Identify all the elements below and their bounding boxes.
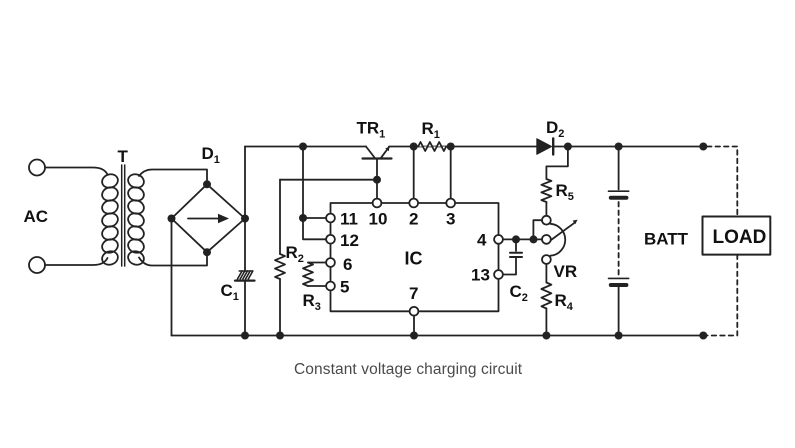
wire junction to pin 11	[303, 217, 326, 219]
dashed wire LOAD to bottom rail	[707, 255, 737, 336]
svg-text:6: 6	[343, 255, 352, 274]
wire bridge right up to top rail	[244, 147, 246, 219]
AC terminal bottom	[29, 257, 45, 273]
svg-text:D1: D1	[202, 144, 220, 166]
node R2 bottom	[276, 332, 284, 340]
svg-text:3: 3	[446, 210, 455, 229]
node R4 bottom	[542, 332, 550, 340]
IC pin 5	[326, 282, 335, 291]
wire VR top terminal to wiper	[533, 220, 542, 238]
svg-text:D2: D2	[546, 118, 564, 140]
wire R2 to bottom rail	[279, 279, 281, 336]
IC pin 2	[409, 199, 418, 208]
svg-text:C1: C1	[221, 281, 239, 303]
node rail x303	[299, 143, 307, 151]
battery dashed middle	[618, 202, 620, 275]
node battery top	[615, 143, 623, 151]
IC pin 3	[446, 199, 455, 208]
top rail right segment	[553, 146, 703, 148]
resistor R4	[541, 283, 551, 309]
svg-text:R2: R2	[286, 243, 304, 265]
wire D2 node to R5	[546, 147, 568, 180]
resistor R2	[275, 254, 285, 279]
wire R2 top lead	[279, 180, 281, 254]
battery cell 2	[609, 278, 629, 285]
wire secondary bottom to bridge	[139, 257, 207, 266]
wire pin 7 to bottom rail	[413, 316, 415, 336]
svg-text:4: 4	[477, 231, 487, 250]
wire bridge right down to C1	[244, 219, 246, 272]
IC pin 13	[494, 270, 503, 279]
svg-text:Constant voltage charging circ: Constant voltage charging circuit	[294, 361, 523, 378]
bridge node right	[241, 215, 249, 223]
svg-text:2: 2	[409, 210, 418, 229]
wire R1 right node to pin 3	[450, 147, 452, 199]
svg-text:13: 13	[471, 266, 490, 285]
wire pin 4 to VR wiper	[503, 238, 542, 240]
wire bridge left to bottom rail	[171, 220, 173, 336]
svg-text:IC: IC	[405, 249, 423, 269]
potentiometer VR	[542, 216, 578, 264]
bridge arrow	[188, 214, 229, 223]
svg-text:TR1: TR1	[357, 119, 386, 141]
IC pin 4	[494, 235, 503, 244]
bridge node bottom	[203, 248, 211, 256]
svg-text:R1: R1	[422, 119, 440, 141]
svg-text:5: 5	[340, 278, 349, 297]
node R1 left	[410, 143, 418, 151]
wire R5 to VR	[545, 202, 547, 216]
node pin7 bottom	[410, 332, 418, 340]
IC pin 7	[410, 307, 419, 316]
dashed wire top rail to LOAD	[707, 147, 737, 217]
IC pin 12	[326, 235, 335, 244]
node TR1 base / pin10 / R2	[373, 176, 381, 184]
resistor R1	[418, 142, 446, 151]
capacitor C1	[235, 271, 255, 281]
transistor TR1	[363, 147, 392, 180]
svg-text:AC: AC	[24, 207, 49, 226]
svg-text:7: 7	[409, 284, 418, 303]
node C2 top	[512, 235, 520, 243]
svg-text:BATT: BATT	[644, 230, 689, 249]
wire R1 left node to pin 2	[413, 147, 415, 199]
IC box	[331, 203, 499, 311]
svg-text:C2: C2	[510, 282, 528, 304]
node load bottom	[699, 332, 707, 340]
battery negative wire	[618, 287, 620, 336]
AC terminal top	[29, 160, 45, 176]
node D2 cathode	[564, 143, 572, 151]
svg-text:R3: R3	[303, 291, 321, 313]
svg-text:R5: R5	[556, 181, 574, 203]
node R1 right	[447, 143, 455, 151]
capacitor C2	[503, 239, 522, 274]
svg-text:LOAD: LOAD	[713, 227, 767, 248]
IC pin 6	[326, 258, 335, 267]
node pin4 wire	[530, 235, 538, 243]
svg-text:T: T	[118, 147, 129, 166]
wire R4 to bottom rail	[545, 309, 547, 336]
wire AC bottom to transformer primary	[45, 258, 108, 265]
LOAD box	[703, 217, 771, 255]
svg-text:11: 11	[340, 210, 358, 229]
bridge rectifier D1 diamond	[172, 184, 246, 252]
bridge node top	[203, 180, 211, 188]
bottom rail	[172, 335, 704, 337]
node C1 bottom	[241, 332, 249, 340]
IC pin 11	[326, 214, 335, 223]
wire base node to pin 10	[376, 180, 378, 199]
node battery bottom	[615, 332, 623, 340]
svg-text:R4: R4	[555, 291, 574, 313]
wire R2 to base node	[280, 179, 377, 181]
battery positive wire	[618, 147, 620, 190]
bridge node left	[168, 215, 176, 223]
svg-text:12: 12	[340, 231, 359, 250]
transformer T secondary coil	[126, 172, 145, 266]
svg-text:10: 10	[369, 210, 388, 229]
transformer T primary coil	[100, 172, 119, 266]
transformer T core	[122, 165, 125, 266]
node pin11 junction	[299, 214, 307, 222]
battery cell 1	[609, 191, 629, 198]
top rail left segment	[245, 146, 366, 148]
wire VR bottom to R4	[545, 264, 547, 283]
IC pin 10	[373, 199, 382, 208]
wire C1 to bottom rail	[244, 281, 246, 336]
diode D2	[537, 139, 553, 155]
wire rail to pins 11,12	[303, 147, 326, 240]
top rail middle segment	[389, 146, 537, 148]
wire AC top to transformer primary	[45, 168, 108, 175]
node load top	[699, 143, 707, 151]
svg-text:VR: VR	[554, 262, 578, 281]
resistor R3 between pins 6 and 5	[303, 263, 326, 287]
wire secondary top to bridge	[139, 170, 207, 181]
resistor R5	[541, 179, 551, 202]
